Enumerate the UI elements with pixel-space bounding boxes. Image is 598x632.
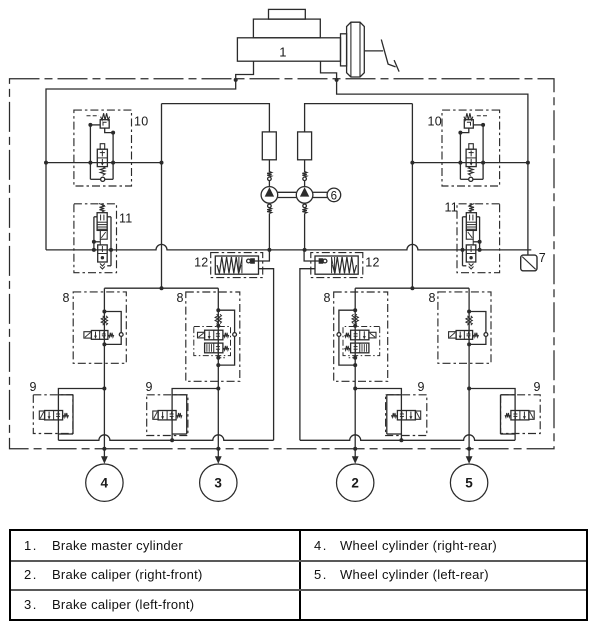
svg-text:9: 9 xyxy=(146,380,153,394)
svg-text:9: 9 xyxy=(534,380,541,394)
valve 9 (outlet, branch 5) xyxy=(467,387,534,441)
table cell 5 xyxy=(314,567,328,582)
svg-text:9: 9 xyxy=(30,380,37,394)
wire inner vertical right xyxy=(411,104,413,289)
node border crossing branch 3 xyxy=(216,447,220,451)
node suction tap right xyxy=(303,248,307,252)
node border crossing branch 4 xyxy=(102,447,106,451)
node MC left port junction xyxy=(234,78,238,82)
wire valve-10-right line xyxy=(412,162,528,164)
accumulator 12 left xyxy=(211,250,274,440)
wire inner vertical left xyxy=(161,104,163,289)
node inner/valve10 right xyxy=(410,161,414,165)
label 11 right xyxy=(445,201,458,215)
label 9 branch 2 xyxy=(418,380,425,394)
valve 8 (inlet, branch 5) xyxy=(449,310,488,347)
wire branch 4 vertical xyxy=(103,288,105,449)
check valve above pump left xyxy=(267,172,272,187)
brake booster xyxy=(347,22,365,77)
wire branch 2 vertical xyxy=(354,288,356,449)
check valve below pump right xyxy=(302,203,307,213)
node inner-vert/branch-rail right xyxy=(410,286,414,290)
wire damper-to-pump left xyxy=(268,160,270,172)
arrow to output 2 xyxy=(352,449,359,464)
valve 9 box branch 5 xyxy=(501,395,541,434)
svg-text:8: 8 xyxy=(63,291,70,305)
label 11 left xyxy=(119,212,132,226)
output circle 3 xyxy=(200,464,237,501)
valve 8 box branch 3 xyxy=(186,292,240,381)
svg-text:8: 8 xyxy=(177,291,184,305)
label 9 branch 5 xyxy=(534,380,541,394)
valve 10 right (pressure regulator) xyxy=(442,110,500,186)
valve 8 box branch 2 xyxy=(334,292,388,381)
node suction tap left xyxy=(267,248,271,252)
valve 8 (inlet, branch 4) xyxy=(84,310,123,347)
node inner-vert/branch-rail left xyxy=(160,286,164,290)
svg-text:11: 11 xyxy=(445,201,458,215)
valve 8 box branch 4 xyxy=(73,292,126,363)
svg-text:12: 12 xyxy=(365,255,379,269)
svg-text:11: 11 xyxy=(119,212,132,226)
brake master cylinder 1 body xyxy=(237,9,340,61)
wire pump suction right xyxy=(304,214,306,250)
damper chamber right xyxy=(298,132,312,160)
parts table xyxy=(9,529,588,621)
wire inner top left xyxy=(162,104,270,132)
svg-text:10: 10 xyxy=(428,115,442,129)
valve 11 right (changeover valve) xyxy=(457,204,500,273)
label 9 branch 3 xyxy=(146,380,153,394)
label 1 (master cylinder) xyxy=(279,45,286,60)
label 8 branch 3 xyxy=(177,291,184,305)
valve 10 left (pressure regulator) xyxy=(74,110,132,186)
motor 6 circle xyxy=(327,188,341,202)
valve 8 box branch 5 xyxy=(438,292,491,363)
arrow to output 4 xyxy=(101,449,108,464)
node border crossing branch 2 xyxy=(353,447,357,451)
output circle 5 xyxy=(450,464,487,501)
svg-text:2: 2 xyxy=(351,475,359,490)
wire return line left (with crossovers) xyxy=(58,435,273,441)
label 6 (pump motor) xyxy=(331,190,338,202)
label 8 branch 2 xyxy=(324,291,331,305)
table cell 3 xyxy=(24,597,38,612)
valve 8 (inlet, branch 2) xyxy=(337,308,380,367)
brake pedal lever xyxy=(381,40,399,72)
label 2 (output) xyxy=(351,475,359,490)
output circle 4 xyxy=(86,464,123,501)
wire inner top right xyxy=(305,104,413,132)
pump P2 right xyxy=(296,187,313,204)
svg-text:7: 7 xyxy=(539,251,546,265)
wire return line right (with crossovers) xyxy=(300,435,515,441)
pump P1 left xyxy=(261,187,278,204)
svg-text:12: 12 xyxy=(194,255,208,269)
label 12 left xyxy=(194,255,208,269)
table center divider xyxy=(299,531,301,619)
wire branch 3 vertical xyxy=(217,288,219,449)
arrow to output 5 xyxy=(466,449,473,464)
wire branch 5 vertical xyxy=(468,288,470,449)
label 8 branch 5 xyxy=(429,291,436,305)
svg-text:8: 8 xyxy=(429,291,436,305)
valve 9 (outlet, branch 2) xyxy=(353,387,421,443)
damper chamber left xyxy=(262,132,276,160)
svg-text:9: 9 xyxy=(418,380,425,394)
valve 9 box branch 4 xyxy=(33,395,73,434)
svg-text:5: 5 xyxy=(465,475,473,490)
svg-text:4: 4 xyxy=(101,475,109,490)
table cell 2 xyxy=(24,567,38,582)
wire branch rail left xyxy=(104,287,218,289)
brake booster collar xyxy=(341,34,347,66)
label 4 (output) xyxy=(101,475,109,490)
check valve above pump right xyxy=(302,172,307,187)
wire right supply rail xyxy=(337,80,528,255)
wire branch rail right xyxy=(355,287,469,289)
label 7 xyxy=(539,251,546,265)
svg-text:10: 10 xyxy=(134,115,148,129)
svg-text:1: 1 xyxy=(279,45,286,60)
svg-text:6: 6 xyxy=(331,190,338,202)
wire left supply rail xyxy=(46,80,236,250)
table row line 1 xyxy=(11,560,586,562)
motor shaft to 6 xyxy=(313,192,327,197)
pressure sensor 7 xyxy=(521,255,537,271)
valve 11 left (changeover valve) xyxy=(74,204,117,273)
wire damper-to-pump right xyxy=(304,160,306,172)
label 10 right xyxy=(428,115,442,129)
label 10 left xyxy=(134,115,148,129)
valve 9 (outlet, branch 4) xyxy=(39,387,106,441)
node inner/valve10 left xyxy=(160,161,164,165)
label 3 (output) xyxy=(214,475,222,490)
label 5 (output) xyxy=(465,475,473,490)
arrow to output 3 xyxy=(215,449,222,464)
table row line 2 xyxy=(11,589,586,591)
svg-text:8: 8 xyxy=(324,291,331,305)
valve 9 (outlet, branch 3) xyxy=(153,387,221,443)
label 8 branch 4 xyxy=(63,291,70,305)
valve 9 box branch 3 xyxy=(147,395,188,436)
label 9 branch 4 xyxy=(30,380,37,394)
svg-text:3: 3 xyxy=(214,475,222,490)
brake pedal pushrod xyxy=(364,50,383,52)
check valve below pump left xyxy=(267,203,272,213)
node rail/valve10 left xyxy=(44,161,48,165)
label 12 right xyxy=(365,255,379,269)
table cell 4 xyxy=(314,538,328,553)
wire MC right port xyxy=(321,61,337,80)
wire valve-10-left line xyxy=(46,162,162,164)
node MC right port junction xyxy=(335,78,339,82)
node border crossing branch 5 xyxy=(467,447,471,451)
valve 8 (inlet, branch 3) xyxy=(194,308,237,367)
pump shaft coupling xyxy=(278,192,297,197)
HECU unit dashed border xyxy=(10,79,555,449)
wire MC left port xyxy=(236,61,254,80)
wire valve-11 line with crossovers xyxy=(46,244,531,250)
wire pump suction left xyxy=(268,214,270,250)
node rail/valve10 right xyxy=(526,161,530,165)
table cell 1 xyxy=(24,538,38,553)
valve 9 box branch 2 xyxy=(386,395,427,436)
accumulator 12 right xyxy=(300,250,363,440)
output circle 2 xyxy=(337,464,374,501)
